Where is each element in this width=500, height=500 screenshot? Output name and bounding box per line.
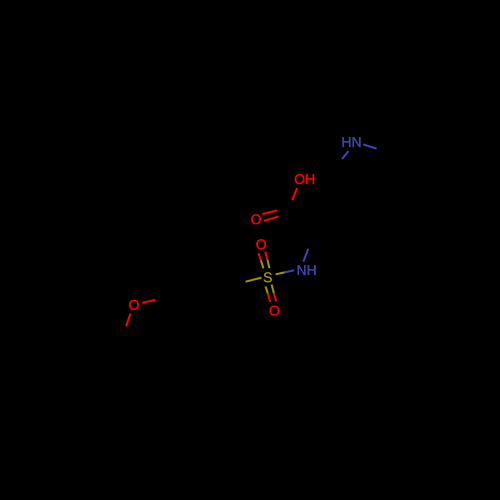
- bond S-N sulfonamide olive half: [276, 272, 285, 274]
- bond N1-C2 of indole (blue half): [363, 144, 376, 148]
- S=O bottom double bond right line olive half: [272, 285, 274, 294]
- sulfonamide label NH: [298, 265, 316, 275]
- S=O top double bond right line red half: [265, 252, 267, 260]
- carbonyl label O: [251, 214, 261, 224]
- sulfonyl top oxygen label O: [256, 239, 266, 249]
- bond S-N sulfonamide blue half: [285, 270, 295, 272]
- bond S-C aryl (olive half): [246, 278, 262, 282]
- S=O top double bond right line olive half: [267, 260, 269, 268]
- bond O-C aryl (red half): [142, 300, 155, 303]
- bond N1-C7a of indole (blue half): [342, 151, 349, 159]
- sulfonyl bottom oxygen label O: [270, 306, 280, 316]
- bond O-C of carboxyl (red half): [292, 188, 297, 200]
- S=O bottom double bond left line olive half: [266, 286, 268, 293]
- indole N-H label HN: [343, 137, 361, 147]
- bond N-C alpha (blue half): [303, 249, 308, 262]
- sulfur label S: [264, 272, 272, 282]
- S=O top double bond left line olive half: [261, 261, 264, 269]
- ether oxygen label O: [129, 300, 139, 310]
- S=O bottom double bond right line red half: [274, 293, 276, 301]
- S=O top double bond left line red half: [258, 253, 261, 261]
- S=O bottom double bond left line red half: [268, 294, 270, 303]
- hydroxyl label OH: [295, 174, 314, 184]
- double bond C=O lower line (red half): [264, 216, 279, 220]
- bond O-CH2 benzyl (red half): [126, 314, 131, 327]
- double bond C=O upper line (red half): [262, 210, 277, 214]
